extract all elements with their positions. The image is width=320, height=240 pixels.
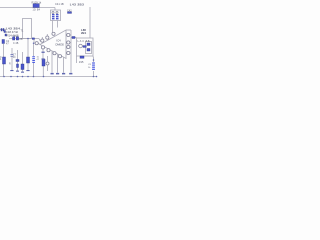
svg-text:R129 1k: R129 1k — [32, 0, 42, 4]
svg-text:8B: 8B — [20, 38, 23, 41]
svg-text:195: 195 — [79, 60, 84, 64]
svg-text:C42: C42 — [67, 10, 72, 13]
svg-text:IC4: IC4 — [57, 39, 62, 43]
svg-text:1D B4: 1D B4 — [33, 9, 41, 12]
svg-text:C 4B: C 4B — [13, 42, 19, 45]
svg-text:2B1: 2B1 — [81, 31, 87, 35]
svg-text:C41 1B: C41 1B — [55, 2, 64, 6]
svg-text:LA4 8B: LA4 8B — [78, 39, 90, 43]
svg-text:L43 2B3: L43 2B3 — [70, 2, 84, 6]
svg-text:DM630: DM630 — [56, 42, 65, 46]
svg-text:R14 4k68: R14 4k68 — [7, 34, 19, 38]
